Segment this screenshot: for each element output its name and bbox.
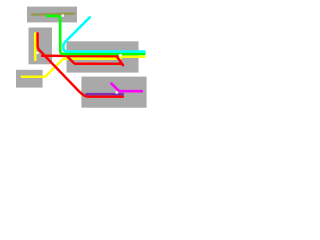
yellow route (bottom-left hline, diagonal, long east hline): [22, 57, 145, 77]
station marker: magenta/purple junction: [116, 91, 118, 93]
red terminal diagonal (east end hook): [117, 56, 123, 65]
purple line: [87, 93, 123, 96]
station marker: on main lines east: [119, 54, 122, 57]
station box G (bottom-left): [16, 70, 43, 88]
station box A (top-left): [27, 7, 77, 23]
red loop lower hline: [75, 62, 120, 65]
green upper hline (in box A) and vertical: [47, 16, 144, 54]
station box F (bottom-right): [81, 77, 146, 108]
red main hline: [42, 55, 117, 58]
station marker: green elbow in box A: [62, 14, 64, 16]
yellow vertical line (in box B): [34, 33, 37, 60]
station marker: on yellow vline: [36, 52, 38, 54]
red route west (vertical in box B, diagonal, bottom hline): [38, 33, 123, 96]
station box B (left): [29, 28, 53, 65]
cyan route (diagonal from NE tip, vertical, east hline): [63, 17, 144, 51]
olive line (inside box A): [32, 14, 74, 15]
station box D (center-right): [67, 41, 139, 72]
magenta route (diagonal + hline): [112, 84, 142, 92]
red branch diagonal down to loop: [68, 57, 76, 64]
